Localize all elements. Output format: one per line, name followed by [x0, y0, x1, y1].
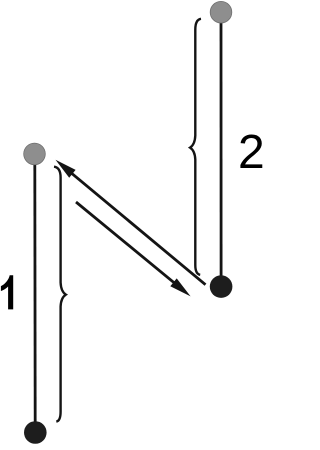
node: black dot bottom of line 2	[210, 275, 233, 298]
node: gray dot top of line 1	[24, 143, 46, 165]
arrow up-left (shaft)	[72, 173, 206, 285]
wire: right vertical line 2	[220, 12, 223, 287]
arrow down-right (shaft)	[76, 202, 174, 283]
brace 2 (left of right line, cusp pointing left)	[190, 19, 201, 275]
arrow down-right (head)	[170, 278, 190, 296]
node: black dot bottom of line 1	[24, 421, 47, 444]
node: gray dot top of line 2	[210, 1, 232, 23]
label 1	[1, 275, 13, 309]
arrow up-left (head)	[56, 160, 76, 178]
brace 1 (right of left line, cusp pointing right)	[54, 167, 66, 422]
wire: left vertical line 1	[33, 154, 36, 432]
label 2	[240, 134, 262, 168]
